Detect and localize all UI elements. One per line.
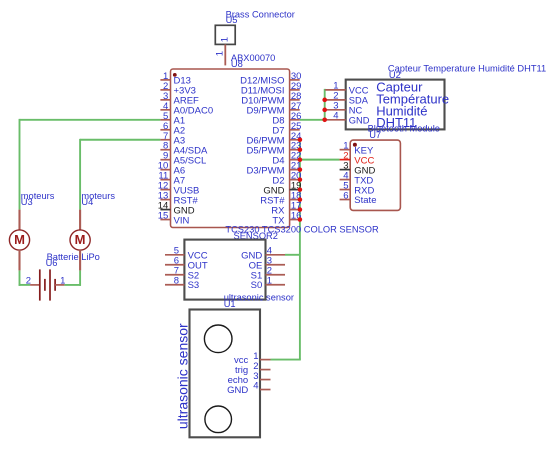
motor U3 body [9,230,29,250]
sensor SENSOR2 pin 7 (S2) leg [165,274,184,276]
svg-text:1: 1 [60,275,65,286]
IC U8 pin number 13 [158,191,169,202]
sensor U2 pin number 2 [333,91,338,102]
sensor U2 pin name VCC [349,85,369,95]
label Brass Connector U5 [226,9,295,25]
sensor U1 rotated name [174,323,190,429]
svg-text:1: 1 [214,51,225,56]
sensor SENSOR2 pin number 7 [174,266,179,277]
IC U8 pin number 27 [291,101,302,112]
wire motor U3 to battery pin 2 (horizontal) [19,284,31,286]
IC U8 right pin 29 (D11/MOSI) leg [290,89,300,91]
IC U8 left pin 13 (RST#) leg [160,199,170,201]
svg-text:2: 2 [26,275,31,286]
wire motor U4 to battery pin 1 (horizontal) [64,284,81,286]
IC U8 left pin 3 (AREF) leg [160,99,170,101]
svg-text:U7: U7 [369,130,381,140]
module U7 pin1 marker dot [353,143,357,147]
sensor U1 pin number 3 [253,371,258,382]
wire D4 to bluetooth VCC [300,159,340,161]
battery U6 pin 1 leg [55,284,64,286]
svg-text:S3: S3 [188,280,200,291]
IC U8 pin name A5/SCL [174,155,207,166]
IC U8 pin name D3/PWM [247,165,285,176]
junction at DHT11 pin 2 [322,98,327,103]
svg-text:1: 1 [267,276,272,287]
IC U8 pin name A7 [174,175,186,186]
IC U8 pin name A3 [174,135,186,146]
IC U8 left pin 10 (A6) leg [160,169,170,171]
svg-text:8: 8 [174,276,179,287]
svg-text:1: 1 [219,37,230,42]
IC U8 pin1 marker dot [173,73,177,77]
module U7 pin 3 (GND) leg [340,169,351,171]
svg-text:GND: GND [227,385,248,396]
module U7 pin number 4 [343,171,348,182]
IC U8 left pin 9 (A5/SCL) leg [160,159,170,161]
IC U8 right pin 21 (D3/PWM) leg [290,169,300,171]
IC U8 right pin 23 (D5/PWM) leg [290,149,300,151]
module U7 pin name TXD [354,175,373,186]
label moteurs U3 [21,191,55,207]
IC U8 pin name D2 [272,175,284,186]
sensor SENSOR2 pin 8 (S3) leg [165,284,184,286]
IC U8 pin name D10/PWM [241,96,284,107]
IC U8 pin name RST# [260,195,285,206]
sensor SENSOR2 pin number 6 [174,256,179,267]
svg-text:M: M [75,232,86,247]
battery U6 pin number 2 [26,275,31,286]
svg-text:M: M [14,232,25,247]
IC U8 pin name A0/DAC0 [174,106,214,117]
sensor SENSOR2 pin name S1 [251,270,263,281]
sensor U2 pin 2 (SDA) leg [325,99,346,101]
sensor SENSOR2 pin name S3 [188,280,200,291]
IC U8 pin number 23 [291,141,302,152]
IC U8 pin name D6/PWM [247,135,285,146]
svg-text:4: 4 [253,381,258,392]
IC U8 pin number 24 [291,131,302,142]
svg-text:GND: GND [349,115,370,125]
svg-text:S0: S0 [251,280,263,291]
IC U8 pin number 8 [163,141,168,152]
module U7 pin number 5 [343,181,348,192]
wire A3 to motor U4 (vertical) [79,139,81,210]
sensor U2 body [346,80,445,130]
sensor U2 pin number 3 [333,101,338,112]
svg-text:4: 4 [333,111,338,122]
svg-text:U5: U5 [226,15,238,25]
svg-text:15: 15 [158,211,169,222]
IC U8 pin number 14 [158,201,169,212]
module U7 pin 6 (State) leg [340,199,351,201]
IC U8 pin number 10 [158,161,169,172]
wire ground bus (vertical) [299,140,301,360]
junction at IC U8 pin 20 [298,177,303,182]
sensor SENSOR2 pin name S0 [251,280,263,291]
IC U8 pin number 6 [163,121,168,132]
sensor U2 pin name NC [349,105,363,115]
IC U8 left pin 5 (A1) leg [160,119,170,121]
sensor U1 pin name echo [228,375,249,386]
sensor U1 pin 4 (GND) leg [260,389,271,391]
IC U8 pin name +3V3 [174,86,196,97]
svg-text:Capteur Temperature Humidité D: Capteur Temperature Humidité DHT11 [388,63,546,73]
battery U6 pin 2 leg [30,284,40,286]
IC U8 left pin 1 (D13) leg [160,79,170,81]
sensor U1 pin 1 (vcc) leg [260,359,271,361]
IC U8 pin name RST# [174,195,199,206]
IC U8 right pin 28 (D10/PWM) leg [290,99,300,101]
IC U8 right pin 30 (D12/MISO) leg [290,79,300,81]
IC U8 pin number 21 [291,161,302,172]
IC U8 pin number 28 [291,91,302,102]
module U7 pin number 1 [343,141,348,152]
module U7 pin name RXD [354,185,374,196]
wire bus to ultrasonic vcc (horizontal) [271,359,301,361]
junction at IC U8 pin 16 [298,217,303,222]
motor U4 body [70,230,90,250]
sensor SENSOR2 pin name S2 [188,270,200,281]
IC U8 pin name RX [271,205,285,216]
IC U8 right pin 16 (TX) leg [290,219,300,221]
sensor SENSOR2 pin 2 (S1) leg [266,274,286,276]
sensor U1 pin name GND [227,385,248,396]
IC U8 pin name D5/PWM [247,145,285,156]
IC U8 pin name A2 [174,125,186,136]
wire DHT11 pin bus (vertical) [324,89,326,120]
IC U8 pin name A1 [174,116,186,127]
connector U5 pin number 1 (rotated) [214,51,225,56]
IC U8 left pin 7 (A3) leg [160,139,170,141]
motor U3 top leg [18,210,20,231]
sensor SENSOR2 pin number 4 [267,246,272,257]
junction at IC U8 pin 19 [298,187,303,192]
junction at DHT11 pin 3 [322,108,327,113]
sensor U1 pin number 1 [253,351,258,362]
module U7 pin name State [354,195,376,206]
IC U8 pin number 17 [291,201,302,212]
wire color sensor GND to bus [285,254,300,256]
sensor SENSOR2 pin name OE [249,260,263,271]
sensor SENSOR2 pin number 8 [174,276,179,287]
svg-text:ultrasonic sensor: ultrasonic sensor [174,323,190,429]
IC U8 pin number 12 [158,181,169,192]
sensor U1 pin 2 (trig) leg [260,369,271,371]
sensor SENSOR2 body [184,240,265,300]
IC U8 left pin 11 (A7) leg [160,179,170,181]
sensor SENSOR2 pin 5 (VCC) leg [165,254,184,256]
junction at IC U8 pin 17 [298,207,303,212]
sensor U1 body [190,310,261,438]
wire motor U4 to battery pin 1 (vertical) [79,270,81,285]
IC U8 pin name TX [272,215,285,226]
sensor U1 pin 3 (echo) leg [260,379,271,381]
IC U8 pin name D9/PWM [247,106,285,117]
IC U8 pin number 5 [163,111,168,122]
IC U8 pin number 15 [158,211,169,222]
label ABX00070 U8 [231,53,275,69]
svg-text:SDA: SDA [349,95,369,105]
label Capteur Temperature Humidite DHT11 U2 [388,63,546,80]
svg-text:NC: NC [349,105,363,115]
module U7 body [350,140,400,210]
IC U8 pin name VUSB [174,185,200,196]
motor U3 bottom leg [18,250,20,271]
IC U8 pin name D4 [272,155,284,166]
junction at IC U8 pin 22 [298,157,303,162]
IC U8 left pin 14 (GND) leg [160,209,170,211]
IC U8 pin number 18 [291,191,302,202]
battery U6 plates [40,269,55,300]
sensor U2 pin 4 (GND) leg [325,119,346,121]
IC U8 pin name AREF [174,96,200,107]
IC U8 right pin 22 (D4) leg [290,159,300,161]
IC U8 pin number 25 [291,121,302,132]
module U7 pin number 3 [343,161,348,172]
module U7 pin number 6 [343,191,348,202]
IC U8 right pin 24 (D6/PWM) leg [290,139,300,141]
module U7 pin number 2 [343,151,348,162]
svg-text:VCC: VCC [349,85,369,95]
IC U8 pin number 4 [163,101,168,112]
IC U8 left pin 4 (A0/DAC0) leg [160,109,170,111]
svg-text:U8: U8 [231,59,243,69]
sensor SENSOR2 pin 3 (OE) leg [266,264,286,266]
module U7 pin name GND [354,165,375,176]
IC U8 pin name GND [174,205,195,216]
IC U8 pin number 2 [163,81,168,92]
label Bluetooth Module U7 [368,124,440,140]
motor U4 top leg [79,210,81,231]
svg-text:6: 6 [343,191,348,202]
IC U8 pin name D7 [272,125,284,136]
IC U8 pin name VIN [174,215,190,226]
junction at IC U8 pin 23 [298,147,303,152]
junction at IC U8 pin 18 [298,197,303,202]
IC U8 pin number 22 [291,151,302,162]
module U7 pin 2 (VCC) leg [340,159,351,161]
module U7 pin 4 (TXD) leg [340,179,351,181]
IC U8 right pin 27 (D9/PWM) leg [290,109,300,111]
junction at IC U8 pin 21 [298,167,303,172]
IC U8 right pin 25 (D7) leg [290,129,300,131]
sensor SENSOR2 pin 4 (GND) leg [266,254,286,256]
module U7 pin 5 (RXD) leg [340,189,351,191]
IC U8 pin name D12/MISO [240,76,284,87]
sensor U1 transducer circle top [204,325,232,353]
IC U8 right pin 18 (RST#) leg [290,199,300,201]
svg-text:U2: U2 [389,70,401,80]
IC U8 body [171,69,290,228]
IC U8 pin number 16 [291,211,302,222]
wire D8 to DHT11 (horizontal) [300,119,325,121]
sensor SENSOR2 pin name VCC [188,250,208,261]
IC U8 pin number 20 [291,171,302,182]
IC U8 left pin 6 (A2) leg [160,129,170,131]
sensor U2 pin 3 (NC) leg [325,109,346,111]
sensor SENSOR2 pin 6 (OUT) leg [165,264,184,266]
IC U8 left pin 2 (+3V3) leg [160,89,170,91]
IC U8 pin number 26 [291,111,302,122]
IC U8 pin number 30 [291,71,302,82]
IC U8 right pin 17 (RX) leg [290,209,300,211]
sensor SENSOR2 pin number 3 [267,256,272,267]
label moteurs U4 [81,191,115,207]
junction at DHT11 pin 4 [322,118,327,123]
sensor U1 pin number 2 [253,361,258,372]
svg-text:U1: U1 [224,299,236,309]
sensor SENSOR2 pin name OUT [188,260,208,271]
IC U8 pin number 11 [158,171,168,182]
wire A3 to motor U4 (horizontal) [80,139,160,141]
IC U8 pin name D8 [272,116,284,127]
IC U8 right pin 20 (D2) leg [290,179,300,181]
connector U5 pin label 1 (rotated) [219,37,230,42]
sensor U1 transducer circle bottom [205,406,232,433]
sensor U2 pin name GND [349,115,370,125]
sensor U1 pin name vcc [234,355,249,366]
wire A1 to motor U3 (vertical) [19,119,21,210]
sensor SENSOR2 pin number 2 [267,266,272,277]
IC U8 pin number 9 [163,151,168,162]
IC U8 pin number 19 [291,181,302,192]
IC U8 pin name GND [263,185,284,196]
sensor U2 value text [376,80,449,130]
IC U8 pin number 3 [163,91,168,102]
svg-text:U6: U6 [46,258,58,268]
sensor U2 pin name SDA [349,95,369,105]
junction at IC U8 pin 24 [298,137,303,142]
motor U4 bottom leg [79,250,81,271]
IC U8 pin name D13 [174,76,191,87]
wire motor U3 to battery pin 2 (vertical) [19,270,21,285]
sensor SENSOR2 pin name GND [241,250,262,261]
sensor U2 pin number 4 [333,111,338,122]
IC U8 pin number 29 [291,81,302,92]
IC U8 right pin 26 (D8) leg [290,119,300,121]
module U7 pin name VCC [354,155,374,166]
sensor U1 pin number 4 [253,381,258,392]
label TCS230 TCS3200 COLOR SENSOR SENSOR2 [225,224,379,241]
IC U8 pin name A6 [174,165,186,176]
wire A1 to motor U3 (horizontal) [20,119,161,121]
IC U8 left pin 8 (A4/SDA) leg [160,149,170,151]
svg-text:State: State [354,195,376,206]
IC U8 left pin 15 (VIN) leg [160,219,170,221]
IC U8 pin number 1 [163,71,168,82]
connector U5 pin 1 leg [224,44,226,65]
battery U6 pin number 1 [60,275,65,286]
svg-text:VIN: VIN [174,215,190,226]
sensor U1 pin name trig [235,365,248,376]
IC U8 pin number 7 [163,131,168,142]
sensor SENSOR2 pin number 5 [174,246,179,257]
connector U5 body [215,25,235,44]
sensor SENSOR2 pin 1 (S0) leg [266,284,286,286]
IC U8 pin name D11/MOSI [241,86,285,97]
sensor U2 pin number 1 [333,81,338,92]
sensor SENSOR2 pin number 1 [267,276,272,287]
IC U8 left pin 12 (VUSB) leg [160,189,170,191]
label ultrasonic sensor U1 [224,293,294,309]
sensor U2 pin 1 (VCC) leg [325,89,346,91]
module U7 pin name KEY [354,145,374,156]
IC U8 right pin 19 (GND) leg [290,189,300,191]
label Batterie LiPo U6 [46,252,100,268]
svg-text:U4: U4 [81,197,93,207]
module U7 pin 1 (KEY) leg [340,149,351,151]
svg-text:U3: U3 [21,197,33,207]
IC U8 pin name A4/SDA [174,145,208,156]
wire DHT11 pin1 stub [324,89,327,91]
